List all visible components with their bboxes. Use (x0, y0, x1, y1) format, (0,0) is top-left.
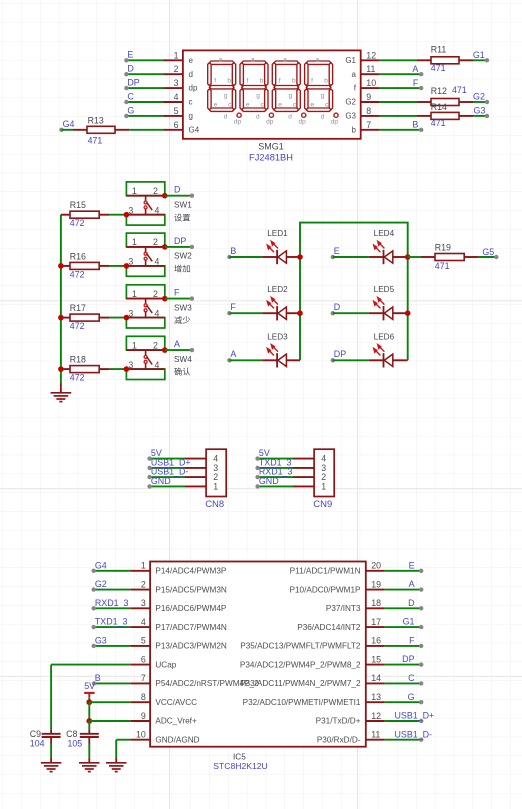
wire IC5 pin10 to ground (116, 739, 130, 741)
svg-text:6: 6 (141, 654, 146, 664)
wire A to LED3 (229, 359, 262, 361)
svg-text:d: d (321, 113, 325, 120)
svg-text:5V: 5V (84, 681, 95, 691)
svg-text:G3: G3 (345, 112, 356, 121)
node F (419, 644, 423, 648)
svg-text:R19: R19 (435, 242, 451, 252)
node USB1_D- (147, 475, 151, 479)
wire SW4 pin2 to A (165, 349, 192, 351)
svg-text:471: 471 (431, 63, 446, 73)
SMG1 right pin numbers (366, 50, 376, 130)
wire R18 to SW4 pin3 (109, 368, 126, 370)
CN8 pin 4 lead (185, 458, 206, 460)
svg-text:DP: DP (334, 349, 346, 359)
node B (227, 255, 231, 259)
SMG1 right pin leads 12-7 (361, 59, 380, 61)
svg-text:d: d (288, 113, 292, 120)
IC5 left pin numbers (136, 561, 146, 740)
svg-text:b: b (260, 78, 264, 85)
node A (227, 358, 231, 362)
digit 4 dp circle (334, 113, 338, 117)
node G3 (92, 644, 96, 648)
node USB1_D+ (147, 466, 151, 470)
wire B to LED1 (229, 256, 262, 258)
wire IC5 pin 20 to E (384, 570, 421, 572)
node GND (255, 484, 259, 488)
wire net C to SMG1 pin4 (126, 101, 163, 103)
ground switch rail (60, 387, 62, 393)
pin numbers SW3 (128, 289, 159, 318)
svg-text:7: 7 (141, 673, 146, 683)
wire R11 to G1 (473, 59, 487, 61)
svg-text:5: 5 (174, 106, 179, 116)
svg-text:R14: R14 (431, 102, 447, 112)
CN8 pin numbers (213, 454, 218, 492)
node USB1_D- (419, 738, 423, 742)
svg-text:1: 1 (141, 561, 146, 571)
svg-text:C: C (408, 673, 415, 683)
resistor R15 (61, 214, 70, 216)
svg-text:f: f (311, 78, 313, 85)
svg-text:A: A (412, 64, 418, 74)
wire DP to LED6 (333, 359, 369, 361)
resistor R17 (61, 317, 70, 319)
IC5 pin 10 lead (130, 739, 150, 741)
svg-text:11: 11 (371, 730, 380, 740)
junction ADC_Vref+ (86, 718, 92, 724)
svg-text:CN9: CN9 (313, 499, 332, 510)
junction rail (58, 263, 64, 269)
pin numbers SW2 (128, 237, 159, 266)
svg-text:b: b (227, 78, 231, 85)
svg-text:P30/RxD/D-: P30/RxD/D- (317, 735, 361, 744)
svg-text:R12: R12 (431, 86, 447, 96)
svg-text:471: 471 (435, 261, 450, 271)
node C (124, 100, 128, 104)
junction SW3 pin3 (124, 315, 130, 321)
wire SW3 pin2 to F (165, 298, 192, 300)
svg-text:E: E (127, 50, 133, 60)
svg-text:15: 15 (371, 654, 381, 664)
svg-text:A: A (174, 339, 180, 349)
wire SMG1 pin7 to B (380, 129, 422, 131)
svg-text:P34/ADC12/PWM4P_2/PWM8_2: P34/ADC12/PWM4P_2/PWM8_2 (240, 660, 361, 669)
wire IC5 pin 17 to G1 (384, 626, 421, 628)
node E (331, 255, 335, 259)
svg-text:1: 1 (132, 186, 137, 196)
svg-text:20: 20 (371, 561, 381, 571)
IC5 pin 3 lead (130, 607, 150, 609)
node E (419, 569, 423, 573)
junction right LED bus (405, 310, 411, 316)
svg-text:d: d (189, 70, 193, 79)
svg-text:R17: R17 (70, 303, 86, 313)
svg-text:10: 10 (136, 730, 146, 740)
svg-text:LED6: LED6 (374, 332, 395, 341)
svg-text:5: 5 (141, 636, 146, 646)
wire SMG1 pin9 to R12 (380, 101, 417, 103)
LED LED2 (262, 312, 277, 314)
SMG1 pin 5 lead (164, 115, 183, 117)
wire IC5 pin 15 to DP (384, 664, 421, 666)
svg-text:DP: DP (174, 236, 186, 246)
node D (124, 72, 128, 76)
svg-text:F: F (409, 636, 415, 646)
IC5 pin 13 lead (366, 701, 385, 703)
svg-text:13: 13 (371, 692, 381, 702)
svg-text:g: g (224, 92, 228, 99)
svg-text:G3: G3 (474, 106, 486, 116)
LED LED4 (369, 256, 384, 258)
node F (227, 311, 231, 315)
wire SMG1 pin10 to F (380, 87, 422, 89)
svg-text:4: 4 (155, 360, 160, 370)
svg-text:G2: G2 (345, 98, 356, 107)
junction VCC (86, 699, 92, 705)
svg-text:4: 4 (155, 205, 160, 215)
svg-text:C: C (127, 91, 134, 101)
svg-text:14: 14 (371, 673, 381, 683)
wire IC5 pin 11 to USB1_D- (384, 739, 421, 741)
svg-text:G4: G4 (63, 119, 75, 129)
SMG1 pin 1 lead (164, 59, 183, 61)
svg-text:2: 2 (153, 340, 158, 350)
svg-text:G2: G2 (95, 579, 107, 589)
node A (419, 587, 423, 591)
svg-text:471: 471 (452, 85, 467, 95)
svg-text:P32/ADC10/PWMETI/PWMETI1: P32/ADC10/PWMETI/PWMETI1 (243, 698, 361, 707)
node DP (124, 86, 128, 90)
switch SW1 (126, 182, 164, 196)
svg-text:e: e (214, 102, 218, 109)
node G (419, 700, 423, 704)
svg-text:D: D (334, 302, 340, 312)
svg-text:471: 471 (88, 136, 103, 146)
svg-text:472: 472 (70, 373, 85, 383)
node G (124, 114, 128, 118)
ground C9 (50, 757, 52, 763)
svg-text:G: G (127, 105, 134, 115)
wire SMG1 pin11 to A (380, 73, 422, 75)
svg-text:SMG1: SMG1 (258, 142, 284, 152)
svg-text:10: 10 (366, 78, 376, 88)
wire net G to SMG1 pin5 (126, 115, 163, 117)
wire IC5 pin 13 to G (384, 701, 421, 703)
svg-text:F: F (230, 302, 236, 312)
svg-text:R13: R13 (88, 116, 104, 126)
wire net D to SMG1 pin2 (126, 73, 163, 75)
svg-text:18: 18 (371, 598, 381, 608)
svg-text:LED2: LED2 (267, 285, 288, 294)
svg-text:105: 105 (68, 739, 83, 749)
svg-text:E: E (409, 560, 415, 570)
svg-text:dp: dp (234, 118, 242, 125)
svg-text:SW4: SW4 (174, 355, 192, 364)
wire D to LED5 (333, 312, 369, 314)
resistor R11 (417, 59, 431, 61)
wire USB1_D+ to CN8 pin 3 (150, 467, 185, 469)
svg-text:4: 4 (174, 92, 179, 102)
svg-text:UCap: UCap (155, 660, 176, 669)
IC5 pin 12 lead (366, 720, 385, 722)
CN9 pin 2 lead (293, 476, 314, 478)
svg-text:8: 8 (141, 692, 146, 702)
svg-text:a: a (251, 57, 255, 64)
svg-text:a: a (315, 57, 319, 64)
connector CN8 (206, 449, 226, 496)
node RXD1_3 (92, 606, 96, 610)
wire IC5 pin6 UCap to C9 (51, 664, 130, 666)
wire 5V to VCC (88, 697, 90, 702)
IC5 pin 11 lead (366, 739, 385, 741)
svg-text:LED5: LED5 (374, 285, 395, 294)
wire bus to R19 (408, 256, 421, 258)
junction SW4 pin2 (162, 347, 168, 353)
node TXD1_3 (92, 625, 96, 629)
wire GND to CN8 pin 1 (150, 485, 185, 487)
pin numbers SW1 (128, 186, 159, 215)
svg-text:1: 1 (132, 237, 137, 247)
svg-text:3: 3 (128, 308, 133, 318)
svg-text:472: 472 (70, 269, 85, 279)
wire IC5 pin 16 to F (384, 645, 421, 647)
digit 2 segments (240, 61, 268, 111)
svg-text:e: e (278, 102, 282, 109)
wire net DP to SMG1 pin3 (126, 87, 163, 89)
svg-text:P31/TxD/D+: P31/TxD/D+ (316, 717, 361, 726)
junction left LED bus (297, 254, 303, 260)
junction SW1 pin2 (162, 193, 168, 199)
svg-text:B: B (412, 120, 418, 130)
node E (124, 58, 128, 62)
node F (419, 86, 423, 90)
CN9 pin 4 lead (293, 458, 314, 460)
svg-text:104: 104 (30, 739, 45, 749)
wire G4 to R13 (62, 129, 74, 131)
svg-text:R15: R15 (70, 200, 86, 210)
svg-text:e: e (189, 56, 194, 65)
svg-text:DP: DP (127, 78, 139, 88)
wire LED5 cathode to bus (393, 312, 408, 314)
capacitor C9 (50, 730, 52, 733)
resistor R13 (73, 129, 87, 131)
wire GND to CN9 pin 1 (258, 485, 293, 487)
svg-text:1: 1 (213, 481, 218, 491)
ground IC5 pin10 (115, 757, 117, 763)
svg-text:a: a (219, 57, 223, 64)
digit 3 segments (272, 61, 300, 111)
CN9 pin numbers (321, 454, 326, 492)
node D (190, 194, 194, 198)
junction SW2 pin2 (162, 244, 168, 250)
svg-text:11: 11 (366, 64, 375, 74)
svg-text:LED1: LED1 (267, 229, 288, 238)
svg-text:B: B (95, 673, 101, 683)
wire TXD1_3 to CN9 pin 3 (258, 467, 293, 469)
wire R16 to SW2 pin3 (109, 265, 126, 267)
svg-text:P33/ADC11/PWM4N_2/PWM7_2: P33/ADC11/PWM4N_2/PWM7_2 (240, 679, 361, 688)
svg-text:LED4: LED4 (374, 229, 395, 238)
wire 5V to CN9 pin 4 (258, 458, 293, 460)
svg-text:2: 2 (153, 237, 158, 247)
LED LED1 (262, 256, 277, 258)
node USB1_D+ (419, 719, 423, 723)
wire LED2 cathode to bus (286, 312, 300, 314)
svg-text:c: c (189, 98, 193, 107)
wire E to LED4 (333, 256, 369, 258)
svg-text:G4: G4 (189, 125, 200, 134)
wire R17 to SW3 pin3 (109, 317, 126, 319)
wire LED3 cathode to bus (286, 359, 300, 361)
node G5 (494, 255, 498, 259)
wire G4 to IC5 pin 1 (94, 570, 131, 572)
CN8 pin 1 lead (185, 485, 206, 487)
node D (331, 311, 335, 315)
SMG1 pin 4 lead (164, 101, 183, 103)
resistor R19 (421, 256, 435, 258)
svg-text:TXD1_3: TXD1_3 (95, 617, 128, 627)
digit 1 segments (208, 61, 236, 111)
svg-text:9: 9 (141, 711, 146, 721)
wire G3 to IC5 pin 5 (94, 645, 131, 647)
digit 4 segments (305, 61, 333, 111)
capacitor C8 (88, 721, 90, 730)
svg-text:4: 4 (141, 617, 146, 627)
svg-text:1: 1 (174, 50, 179, 60)
svg-text:2: 2 (153, 186, 158, 196)
node A (419, 72, 423, 76)
svg-text:GND: GND (151, 476, 171, 486)
junction rail (58, 366, 64, 372)
svg-text:G1: G1 (345, 56, 356, 65)
svg-text:4: 4 (155, 257, 160, 267)
svg-text:设置: 设置 (174, 212, 190, 222)
node G4 (92, 569, 96, 573)
svg-text:2: 2 (153, 289, 158, 299)
svg-text:B: B (230, 246, 236, 256)
digit 3 dp circle (302, 113, 306, 117)
svg-text:F: F (174, 288, 180, 298)
svg-text:9: 9 (366, 92, 371, 102)
svg-text:d: d (256, 113, 260, 120)
node TXD1_3 (255, 466, 259, 470)
IC5 pin 4 lead (130, 626, 150, 628)
IC5 pin 9 lead (130, 720, 150, 722)
wire 5V to CN8 pin 4 (150, 458, 185, 460)
svg-text:P11/ADC1/PWM1N: P11/ADC1/PWM1N (290, 567, 361, 576)
switch SW2 (126, 233, 164, 247)
svg-text:R18: R18 (70, 355, 86, 365)
wire IC5 pin 18 to D (384, 607, 421, 609)
CN8 pin 2 lead (185, 476, 206, 478)
svg-text:f: f (279, 78, 281, 85)
svg-text:12: 12 (371, 711, 381, 721)
wire switch common rail (60, 215, 62, 383)
svg-text:7: 7 (366, 120, 371, 130)
IC5 pin 14 lead (366, 682, 385, 684)
svg-text:CN8: CN8 (205, 499, 224, 510)
IC5 right pin names (240, 567, 361, 745)
wire SW2 pin2 to DP (165, 246, 192, 248)
wire C9 to ground (50, 744, 52, 758)
svg-text:SW2: SW2 (174, 252, 192, 261)
resistor R16 (61, 265, 70, 267)
node G2 (92, 587, 96, 591)
junction SW4 pin3 (124, 366, 130, 372)
svg-text:g: g (288, 92, 292, 99)
wire RXD1_3 to CN9 pin 2 (258, 476, 293, 478)
svg-text:g: g (189, 112, 193, 121)
IC5 pin 2 lead (130, 589, 150, 591)
svg-text:2: 2 (141, 579, 146, 589)
svg-text:E: E (334, 246, 340, 256)
wire R19 to G5 (478, 256, 496, 258)
digit 1 dp circle (237, 113, 241, 117)
node F (190, 296, 194, 300)
IC5 pin 7 lead (130, 682, 150, 684)
connector CN9 (314, 449, 334, 496)
svg-text:G5: G5 (482, 247, 494, 257)
svg-text:STC8H2K12U: STC8H2K12U (213, 761, 267, 771)
svg-text:e: e (246, 102, 250, 109)
IC5 pin 19 lead (366, 589, 385, 591)
IC5 right pin numbers (371, 561, 381, 740)
LED LED6 (369, 359, 384, 361)
svg-text:SW1: SW1 (174, 201, 192, 210)
resistor R12 (417, 101, 431, 103)
wire R13 to SMG1 pin6 (129, 129, 163, 131)
svg-text:P17/ADC7/PWM4N: P17/ADC7/PWM4N (155, 623, 227, 632)
svg-text:GND: GND (259, 476, 279, 486)
IC5 pin 5 lead (130, 645, 150, 647)
IC5 pin 1 lead (130, 570, 150, 572)
svg-text:1: 1 (321, 481, 326, 491)
svg-text:dp: dp (331, 118, 339, 125)
node G4 (59, 128, 63, 132)
svg-text:P36/ADC14/INT2: P36/ADC14/INT2 (297, 623, 361, 632)
wire R14 to G3 (473, 115, 487, 117)
svg-text:D: D (408, 598, 414, 608)
wire SW1 pin2 to D (165, 195, 192, 197)
svg-text:g: g (321, 92, 325, 99)
wire C8 to ground (88, 744, 90, 758)
wire F to LED2 (229, 312, 262, 314)
svg-text:b: b (324, 78, 328, 85)
svg-text:16: 16 (371, 636, 381, 646)
node G2 (485, 100, 489, 104)
resistor R14 (417, 115, 431, 117)
svg-text:a: a (283, 57, 287, 64)
LED LED5 (369, 312, 384, 314)
switch SW3 (126, 285, 164, 299)
svg-text:F: F (413, 78, 419, 88)
junction SW2 pin3 (124, 263, 130, 269)
svg-text:g: g (256, 92, 260, 99)
wire SMG1 pin8 to R14 (380, 115, 417, 117)
wire G2 to IC5 pin 2 (94, 589, 131, 591)
wire net E to SMG1 pin1 (126, 59, 163, 61)
svg-text:17: 17 (371, 617, 381, 627)
svg-text:dp: dp (298, 118, 306, 125)
svg-text:增加: 增加 (174, 264, 190, 274)
svg-text:P16/ADC6/PWM4P: P16/ADC6/PWM4P (155, 604, 227, 613)
svg-text:e: e (310, 102, 314, 109)
wire B to IC5 pin7 (94, 682, 130, 684)
svg-text:472: 472 (70, 218, 85, 228)
svg-text:D: D (174, 185, 180, 195)
svg-text:确认: 确认 (174, 367, 190, 377)
svg-text:GND/AGND: GND/AGND (155, 735, 199, 744)
